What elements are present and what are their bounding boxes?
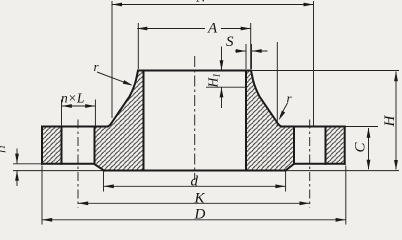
A extension right [250,23,252,69]
S dimension line [235,50,268,52]
n x L dimension line [62,105,96,107]
D arrows [42,218,52,222]
S extension lines [245,44,247,69]
svg-text:N: N [195,0,207,6]
hatch right rim block [326,127,345,164]
n x L arrows [62,104,72,108]
flange right edge [344,127,346,164]
svg-text:H: H [382,115,398,128]
raised face bottom [104,170,286,172]
flange top right [282,126,345,128]
n x L extension left [61,100,63,127]
H1 arrows [220,60,224,70]
svg-text:K: K [194,190,206,206]
A dimension line [137,28,250,30]
bolt centerline right / K extension [309,120,311,208]
D extension right [345,166,347,225]
d extension left [103,172,105,192]
hatch left hub wall [94,71,144,171]
back face right [294,163,345,165]
bolt centerline left / K extension [77,120,79,208]
C top extension [345,126,378,128]
bolt hole left edges [61,127,63,164]
f1 extension top [13,163,42,165]
N extension left [111,1,113,118]
neck top face [138,70,251,72]
d extension right [285,172,287,192]
r leader arrow right [277,111,285,122]
r leader right [280,103,287,116]
f1 dimension line [16,149,18,187]
svg-text:C: C [353,142,369,153]
bore wall right [245,71,247,171]
N extension right [313,1,315,127]
H1 bottom extension [206,86,246,88]
H1 dimension line [221,47,223,109]
D dimension line [42,219,346,221]
H top extension line [251,70,399,72]
svg-text:D: D [194,207,206,223]
bolt hole right edges [293,127,295,164]
N dimension line [112,4,314,6]
S arrows [236,49,246,53]
hub outer profile right [251,71,282,127]
f1 arrows [15,154,19,164]
hub outer profile left [108,71,139,127]
bore wall left [143,71,145,171]
hub vertical reference line [276,42,278,127]
svg-text:A: A [207,21,218,37]
N arrows [112,3,122,7]
svg-text:d: d [191,173,199,189]
H arrows [394,71,398,81]
raised face chamfer left [94,164,104,171]
K arrows [78,201,88,205]
d arrows [104,184,114,188]
back face left [42,163,94,165]
raised face chamfer right [286,164,295,171]
A extension left [137,23,139,69]
svg-text:S: S [226,34,234,50]
r leader left [97,72,124,82]
svg-text:n×L: n×L [61,91,84,106]
hatch left rim block [42,127,62,164]
K dimension line [78,202,310,204]
C / H bottom datum line [286,170,400,172]
d dimension line [104,185,286,187]
C arrows [367,128,371,138]
f1 extension bottom [13,170,104,172]
A arrows [137,27,147,31]
svg-text:f1: f1 [0,145,7,153]
C dimension line [368,128,370,169]
center axis line [194,56,196,180]
r leader arrow left [123,80,134,87]
D extension left [41,166,43,225]
n x L extension right [94,100,96,127]
H dimension line [395,72,397,170]
flange top left [42,126,108,128]
flange left edge [41,127,43,164]
hatch right hub wall [246,71,294,171]
